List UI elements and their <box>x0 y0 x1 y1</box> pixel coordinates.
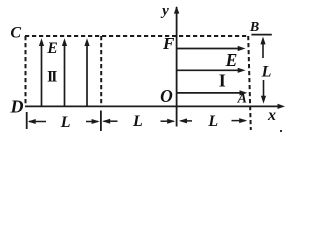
dimension arrow left seg3 <box>181 120 193 122</box>
svg-text:E: E <box>225 50 238 70</box>
svg-text:L: L <box>261 64 272 81</box>
left dashed edge C-D <box>25 36 27 106</box>
svg-text:x: x <box>267 107 276 124</box>
svg-text:F: F <box>162 34 175 53</box>
field arrow up 3 (region II) <box>86 43 88 106</box>
dimension arrow left seg1 <box>29 121 46 123</box>
svg-text:D: D <box>10 96 24 116</box>
svg-text:C: C <box>10 24 21 41</box>
dimension arrow right seg1 <box>86 121 98 123</box>
y-axis <box>176 7 178 127</box>
dimension arrow right seg2 <box>161 120 174 122</box>
svg-text:O: O <box>160 86 173 106</box>
svg-text:L: L <box>207 113 218 130</box>
svg-text:L: L <box>132 113 143 130</box>
right dimension top tick <box>251 34 271 36</box>
svg-text:A: A <box>237 92 247 107</box>
svg-text:B: B <box>249 20 259 35</box>
x-axis <box>25 105 280 107</box>
inner dashed boundary line <box>100 36 102 106</box>
field arrow up 1 (region II) <box>41 43 43 106</box>
right dashed edge B-A with tick below axis <box>248 36 251 130</box>
svg-text:L: L <box>60 114 71 131</box>
bottom dimension tick 1 <box>26 112 28 129</box>
field arrow up 2 (region II) <box>64 43 66 106</box>
field arrow right 1 (from F) <box>178 48 241 50</box>
bottom dimension tick 2 <box>100 111 102 132</box>
dimension arrow left seg2 <box>104 120 118 122</box>
top dashed edge C-B <box>25 35 248 37</box>
svg-text:E: E <box>46 40 57 57</box>
field arrow right 3 <box>178 92 242 94</box>
right dimension up arrow <box>262 41 264 58</box>
dimension arrow right seg3 <box>232 120 246 122</box>
svg-text:I: I <box>219 71 226 91</box>
stray dot <box>280 130 282 132</box>
field arrow right 2 <box>178 69 241 71</box>
right dimension down arrow <box>263 80 265 100</box>
svg-text:y: y <box>160 3 169 19</box>
